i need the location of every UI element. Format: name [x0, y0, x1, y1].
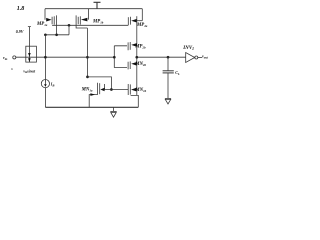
node second stage input	[113, 56, 116, 59]
wire capacitor stem	[167, 57, 169, 70]
svg-text:MP1a: MP1a	[36, 22, 48, 27]
svg-text:b: b	[11, 67, 13, 71]
svg-text:MP2b: MP2b	[134, 44, 146, 49]
node mirror-input corner	[44, 33, 47, 36]
wire MN1a diode tee	[87, 77, 111, 90]
node gate-drain tie	[68, 24, 71, 27]
transistor MN1b	[128, 84, 146, 107]
svg-text:IB: IB	[50, 82, 55, 88]
svg-text:INV1: INV1	[182, 46, 194, 51]
source box	[11, 27, 36, 75]
svg-text:MN1a: MN1a	[81, 88, 93, 93]
node capacitor tap	[167, 56, 170, 59]
current source IB	[41, 80, 54, 88]
svg-text:CL: CL	[175, 70, 180, 76]
node MN1a gate-drain tie	[110, 88, 113, 91]
transistor MP1a	[36, 9, 57, 35]
transistor MN1a	[81, 83, 105, 108]
capacitor CL	[163, 56, 180, 98]
svg-text:1.8: 1.8	[17, 6, 25, 12]
node second stage output	[135, 56, 138, 59]
transistor MP1b	[76, 9, 104, 28]
wire input row	[16, 56, 115, 58]
wire second stage input bracket	[114, 46, 127, 68]
svg-text:vin: vin	[3, 55, 8, 61]
ground under capacitor	[165, 97, 171, 99]
transistor MN2b	[128, 57, 146, 84]
wire diode tie	[68, 25, 70, 35]
svg-text:MN2b: MN2b	[134, 62, 146, 67]
wire MN mirror gate line	[105, 89, 129, 91]
input terminal vin	[3, 55, 16, 61]
svg-text:0.9V: 0.9V	[16, 29, 24, 34]
svg-text:vinsinωt: vinsinωt	[23, 69, 36, 74]
wire bottom rail	[45, 106, 138, 108]
wire below IB	[44, 88, 46, 108]
junction input/left branch	[44, 56, 47, 59]
wire left branch	[44, 35, 46, 82]
ground main rail	[113, 107, 115, 111]
svg-text:vout: vout	[202, 54, 208, 60]
junction MP1a drain	[55, 33, 58, 36]
wire top rail	[45, 8, 142, 10]
node MN1a drain tee	[86, 76, 89, 79]
transistor MP2a	[128, 9, 147, 45]
wire common gate line	[52, 24, 128, 26]
wire MP1b drain down	[86, 28, 88, 77]
wire mirror node	[45, 34, 69, 36]
wire output row	[137, 56, 186, 58]
VDD symbol	[94, 2, 101, 8]
svg-text:MN1b: MN1b	[134, 88, 146, 93]
svg-text:MP1b: MP1b	[92, 19, 104, 24]
svg-text:MP2a: MP2a	[136, 23, 148, 28]
inverter INV1	[182, 46, 208, 62]
transistor MP2b	[128, 42, 146, 57]
node first stage	[86, 56, 89, 59]
